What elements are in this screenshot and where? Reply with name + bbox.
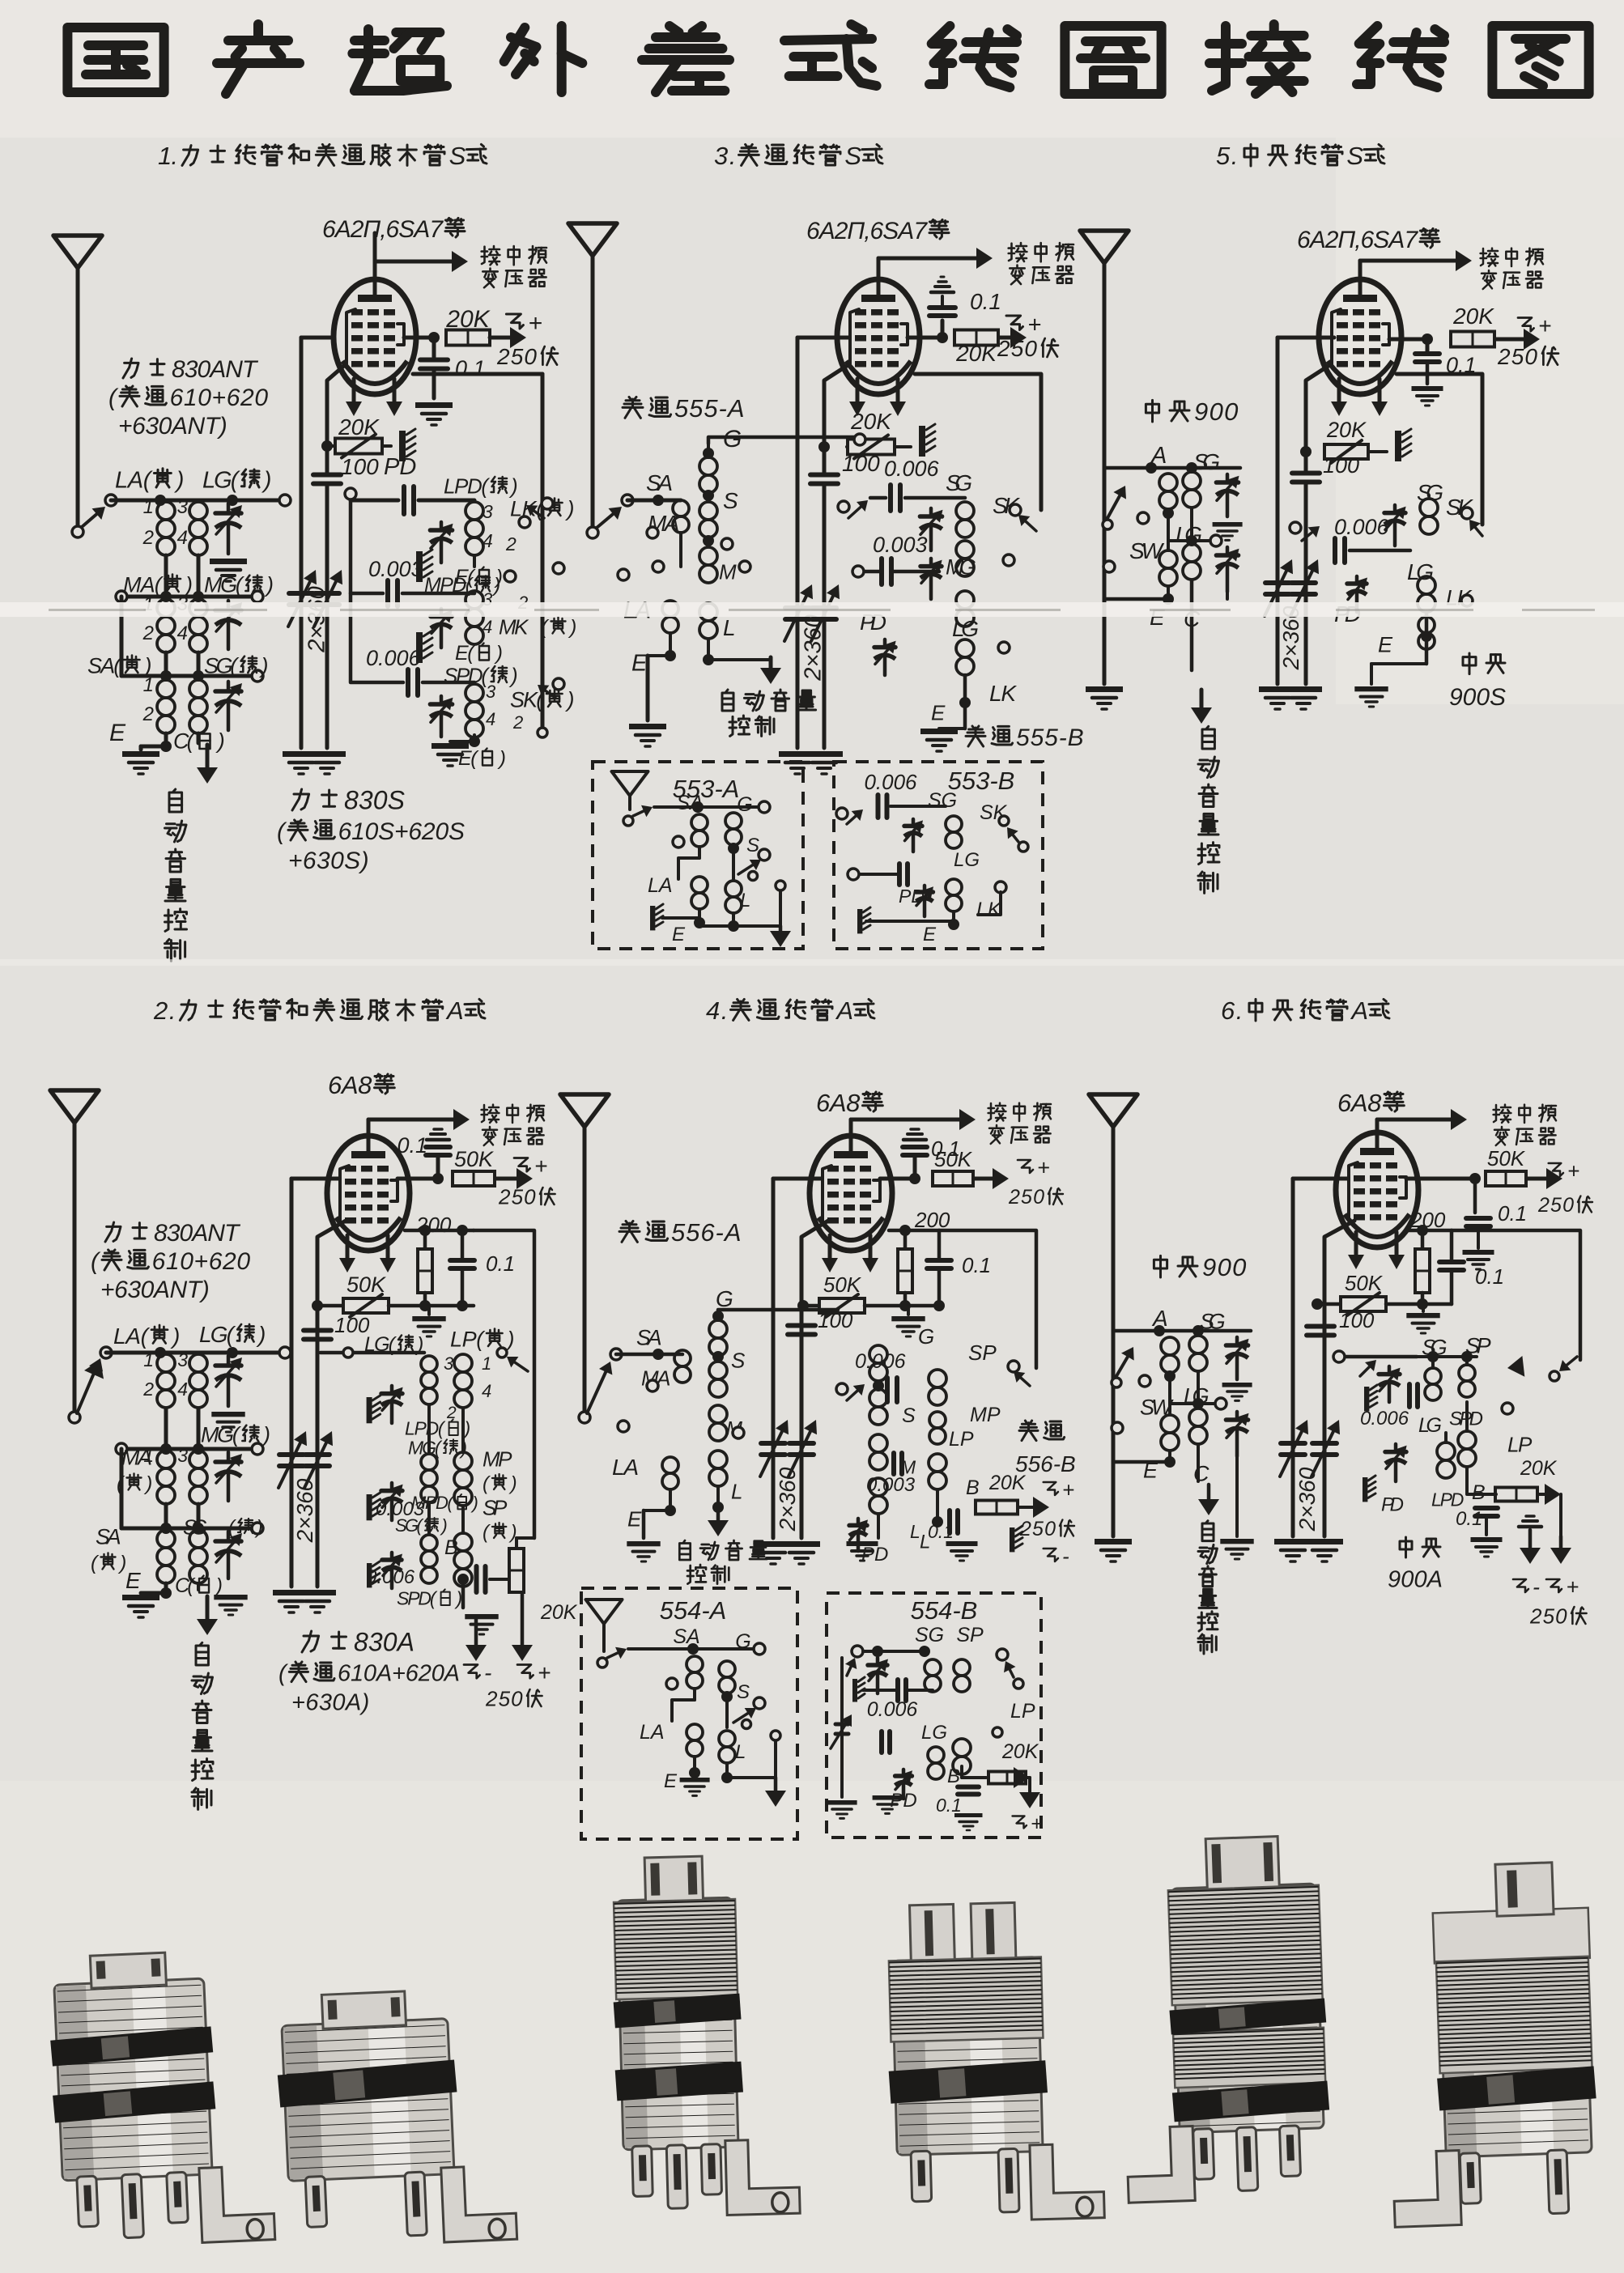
svg-text:6A2Π,6SA7: 6A2Π,6SA7 <box>322 216 444 243</box>
label 变压器 <box>1501 1127 1503 1128</box>
wire arrow <box>368 1118 461 1122</box>
wire <box>1559 1494 1562 1538</box>
wire <box>908 1132 922 1136</box>
junction <box>1422 334 1433 345</box>
wire <box>1397 374 1482 525</box>
wire <box>197 1583 200 1590</box>
trimmer capacitor <box>1235 1337 1239 1345</box>
ground <box>415 402 453 408</box>
coil MG osc <box>421 1454 437 1470</box>
coil LA <box>662 601 678 617</box>
svg-text:610A+620A: 610A+620A <box>338 1660 460 1686</box>
antenna diagram4 <box>560 1094 609 1127</box>
capacitor 0.1 <box>450 1258 474 1263</box>
inset dashed box <box>834 762 1043 949</box>
label 中央900 <box>1154 1260 1167 1268</box>
svg-text:0.003: 0.003 <box>873 533 928 557</box>
svg-text:LA: LA <box>648 874 673 897</box>
trimmer capacitor <box>1235 1412 1239 1420</box>
coil SG <box>189 680 207 698</box>
wire arrow <box>1012 834 1018 842</box>
svg-text:PD: PD <box>890 1790 916 1812</box>
junction <box>653 495 664 506</box>
svg-text:SP: SP <box>956 1624 984 1646</box>
wire <box>1350 549 1410 553</box>
label 接中频 <box>482 1105 484 1122</box>
coil S <box>699 502 717 520</box>
wire <box>797 336 848 340</box>
svg-text:0.1: 0.1 <box>970 289 1001 314</box>
wire <box>835 1732 848 1736</box>
wire <box>662 916 699 920</box>
wire arrow <box>999 336 1018 340</box>
terminal <box>279 1347 291 1358</box>
wire <box>933 1651 962 1652</box>
coil LG right <box>1418 576 1435 594</box>
wire arrow <box>1566 1357 1577 1366</box>
wire <box>197 652 201 676</box>
trimmer capacitor <box>440 696 444 704</box>
terminal <box>538 728 547 737</box>
coil SA/MA <box>673 500 689 516</box>
wire <box>877 257 881 261</box>
wire arrow <box>1474 526 1482 536</box>
svg-text:L: L <box>740 890 750 911</box>
wire arrow <box>847 815 857 824</box>
coil former photo <box>1116 1835 1333 2203</box>
wire <box>732 845 735 879</box>
wire arrow <box>597 512 615 528</box>
coil winding <box>709 1320 727 1338</box>
ground <box>755 1541 792 1547</box>
svg-text:SG: SG <box>915 1624 944 1646</box>
wire <box>1170 1402 1218 1405</box>
junction <box>160 670 172 682</box>
coil winding <box>1437 1442 1455 1460</box>
label 2×360 <box>800 614 826 681</box>
coil LA <box>157 1354 175 1372</box>
chassis ground <box>1010 1527 1014 1552</box>
wire <box>450 740 474 743</box>
variable capacitor 2x360 <box>1265 580 1290 585</box>
coil A <box>1159 474 1177 491</box>
wire <box>291 1177 339 1181</box>
wire arrow <box>77 1366 97 1413</box>
coil SA/MA <box>674 1350 691 1366</box>
svg-text:4: 4 <box>482 1381 491 1401</box>
junction <box>469 736 480 747</box>
wire <box>698 909 701 923</box>
terminal <box>519 516 530 528</box>
svg-text:6.: 6. <box>1221 996 1243 1025</box>
chassis ground <box>1364 1387 1369 1411</box>
svg-text:-: - <box>1533 1575 1540 1600</box>
terminal <box>542 498 553 509</box>
trimmer capacitor <box>923 886 927 892</box>
label 接中频 <box>1494 1105 1496 1122</box>
svg-text:50K: 50K <box>1487 1146 1526 1170</box>
capacitor <box>1415 351 1439 356</box>
junction <box>703 490 714 501</box>
wire <box>1519 1525 1541 1529</box>
wire arrow <box>607 1652 619 1658</box>
inset dashed box <box>593 762 803 949</box>
wire <box>121 1527 257 1531</box>
wire arrow <box>847 1665 852 1676</box>
terminal <box>1550 1371 1559 1381</box>
label 接中频 <box>988 1103 991 1120</box>
svg-text:LA(: LA( <box>113 1323 151 1349</box>
junction <box>1164 1370 1175 1382</box>
svg-text:A: A <box>445 996 464 1025</box>
antenna lead wire <box>1103 263 1107 684</box>
svg-text:3: 3 <box>483 501 493 522</box>
capacitor <box>1466 1216 1490 1221</box>
junction <box>321 440 333 452</box>
resistor 20K <box>1495 1488 1537 1502</box>
svg-text:MP: MP <box>483 1447 512 1471</box>
label 2×360 <box>775 1467 800 1532</box>
svg-text:SPD(: SPD( <box>397 1587 438 1608</box>
rheostat 50K <box>819 1298 865 1313</box>
ground <box>629 724 666 729</box>
junction <box>1186 462 1197 474</box>
svg-text:S: S <box>1346 142 1363 170</box>
svg-text:0.006: 0.006 <box>1334 515 1390 539</box>
svg-text:G: G <box>737 793 752 816</box>
wire <box>903 1230 908 1249</box>
wire <box>405 1229 474 1233</box>
wire <box>121 1447 257 1451</box>
wire <box>801 1221 828 1538</box>
svg-text:555-B: 555-B <box>1016 724 1084 751</box>
wire <box>725 1763 729 1778</box>
terminal <box>116 1443 127 1455</box>
wire <box>1306 550 1330 551</box>
terminal <box>754 1697 765 1709</box>
terminal <box>673 836 684 848</box>
resistor <box>988 1772 1026 1784</box>
wire <box>1477 1229 1480 1248</box>
chassis ground <box>919 426 925 457</box>
svg-text:MG(: MG( <box>201 1423 242 1447</box>
svg-text:250: 250 <box>1529 1604 1567 1628</box>
wire <box>106 1351 283 1355</box>
wire arrow <box>375 260 460 264</box>
coil SW <box>1161 1415 1179 1433</box>
wire <box>908 336 942 340</box>
wire <box>693 1757 696 1773</box>
wire <box>164 1408 168 1449</box>
trimmer capacitor LG <box>227 503 231 513</box>
svg-text:2×360: 2×360 <box>1295 1467 1320 1532</box>
wire arrow <box>490 336 518 340</box>
terminal <box>754 1643 765 1655</box>
wire <box>1425 612 1429 664</box>
ground <box>1354 686 1388 691</box>
label 乙- <box>1044 1549 1058 1561</box>
label 2×360 <box>292 1478 317 1543</box>
label 乙+ <box>506 314 523 329</box>
junction <box>653 1349 664 1360</box>
svg-text:S: S <box>449 142 466 170</box>
svg-text:S: S <box>731 1348 746 1372</box>
svg-text:4: 4 <box>483 617 492 637</box>
wire <box>1197 1444 1200 1481</box>
trimmer capacitor <box>929 559 933 567</box>
wire arrow <box>1528 1530 1533 1556</box>
wire arrow <box>1377 1118 1459 1122</box>
wire arrow <box>206 745 210 775</box>
wire <box>1324 1221 1354 1536</box>
terminal <box>343 1348 353 1357</box>
terminal <box>653 561 664 572</box>
junction <box>721 1772 733 1783</box>
wire <box>1444 1433 1448 1442</box>
ground <box>273 1590 310 1595</box>
junction <box>457 1300 468 1311</box>
junction <box>160 1443 172 1455</box>
chassis ground <box>852 1679 857 1702</box>
wire <box>1344 1355 1417 1359</box>
capacitor <box>927 1258 951 1263</box>
wire <box>707 639 710 660</box>
wire <box>1293 1177 1348 1181</box>
chassis ground <box>1363 1477 1367 1502</box>
svg-text:0.1: 0.1 <box>486 1251 515 1276</box>
capacitor <box>891 1453 896 1474</box>
capacitor 100 <box>1307 1324 1334 1329</box>
capacitor <box>474 1566 479 1592</box>
wire arrow <box>1019 1377 1030 1386</box>
wire <box>1523 1519 1537 1523</box>
wire <box>939 1230 1036 1368</box>
wire <box>908 1689 933 1692</box>
wire arrow <box>1116 1354 1129 1376</box>
wire arrow <box>1018 1506 1041 1509</box>
wire <box>473 735 476 741</box>
antenna diagram6 <box>1089 1094 1137 1127</box>
svg-text:1.: 1. <box>158 142 178 170</box>
svg-text:SG(: SG( <box>395 1515 424 1536</box>
wire <box>708 452 803 454</box>
svg-text:0.003: 0.003 <box>368 557 423 581</box>
terminal <box>69 1412 80 1423</box>
coil winding <box>953 1739 971 1757</box>
wire <box>642 1510 646 1538</box>
ground <box>299 1590 336 1595</box>
wire arrow <box>1527 1177 1554 1181</box>
wire <box>382 444 391 448</box>
terminal <box>1103 520 1112 529</box>
capacitor 0.1 <box>929 305 955 310</box>
terminal <box>1014 1679 1023 1689</box>
junction <box>689 1767 700 1778</box>
coil SG <box>189 1530 207 1548</box>
wire <box>1317 1302 1341 1306</box>
wire <box>141 745 166 749</box>
ground <box>122 751 159 757</box>
wire <box>870 496 886 500</box>
wire arrow <box>769 657 773 676</box>
wire <box>1527 1513 1550 1515</box>
wire arrow <box>633 810 645 816</box>
svg-text:SG: SG <box>946 470 972 495</box>
terminal <box>618 1421 629 1432</box>
wire arrow <box>1360 259 1464 263</box>
svg-text:E: E <box>109 720 126 746</box>
svg-text:4: 4 <box>483 530 493 551</box>
wire <box>903 1293 908 1306</box>
svg-text:B: B <box>966 1476 980 1499</box>
svg-text:6A2Π,6SA7: 6A2Π,6SA7 <box>806 218 928 244</box>
wire <box>121 595 257 599</box>
svg-text:C: C <box>1193 1462 1209 1486</box>
coil winding <box>869 1434 887 1452</box>
label 美通556-A <box>626 1221 627 1223</box>
coil LG <box>189 502 207 520</box>
capacitor <box>1475 1506 1498 1510</box>
ground <box>214 1595 247 1600</box>
coil winding <box>691 877 708 893</box>
terminal <box>1008 1361 1019 1372</box>
coil SG <box>1189 1336 1207 1353</box>
wire <box>1452 1230 1580 1360</box>
capacitor 0.1 <box>420 358 448 363</box>
svg-text:1: 1 <box>143 496 154 518</box>
svg-text:4: 4 <box>177 1379 188 1400</box>
chassis ground <box>367 1397 372 1423</box>
svg-text:2×360: 2×360 <box>304 586 329 652</box>
svg-text:900: 900 <box>1194 397 1238 426</box>
wire <box>907 1306 910 1315</box>
svg-text:LP(: LP( <box>450 1328 486 1352</box>
terminal <box>993 1727 1002 1737</box>
svg-text:0.006: 0.006 <box>884 457 940 481</box>
svg-text:PD: PD <box>1381 1494 1404 1516</box>
wire <box>1426 363 1430 384</box>
label 中央 <box>1400 1541 1412 1549</box>
coil LA <box>662 1457 678 1473</box>
svg-text:900S: 900S <box>1449 684 1506 711</box>
coil winding <box>929 1454 946 1472</box>
coil former photo <box>274 1986 517 2249</box>
coil winding <box>725 813 742 829</box>
junction <box>1192 1398 1204 1409</box>
variable capacitor 2x360 <box>761 1441 785 1446</box>
trimmer capacitor <box>227 1532 231 1541</box>
capacitor 0.003 <box>879 559 884 584</box>
svg-text:2: 2 <box>512 712 523 733</box>
coil LG osc <box>421 1356 437 1372</box>
wire <box>669 633 672 656</box>
junction <box>227 1347 238 1358</box>
wire <box>141 1591 166 1595</box>
resistor 50K plate <box>1486 1171 1526 1186</box>
terminal <box>836 808 848 819</box>
svg-text:-: - <box>1062 1544 1069 1568</box>
terminal <box>1139 1375 1150 1387</box>
wire <box>1465 1402 1469 1431</box>
junction <box>937 332 948 343</box>
svg-text:1: 1 <box>143 1445 154 1466</box>
terminal <box>579 1412 590 1423</box>
terminal <box>759 849 770 860</box>
wire <box>517 1536 534 1540</box>
wire <box>961 1522 963 1538</box>
wire <box>847 445 848 448</box>
junction <box>1164 1456 1175 1468</box>
wire <box>648 654 670 657</box>
trimmer capacitor <box>1226 547 1230 555</box>
trimmer capacitor MG <box>227 601 231 610</box>
wire <box>803 1304 819 1308</box>
coil LK <box>956 639 974 657</box>
ground <box>432 743 469 749</box>
wire <box>373 233 377 261</box>
trimmer capacitor SG <box>227 682 231 691</box>
svg-text:2: 2 <box>142 527 154 549</box>
wire <box>461 1506 465 1533</box>
wire arrow <box>716 1507 721 1528</box>
trimmer capacitor <box>912 819 916 826</box>
svg-text:0.006: 0.006 <box>864 770 917 794</box>
label 美通555-A <box>629 397 631 399</box>
terminal <box>647 527 658 538</box>
coil former photo <box>884 1901 1104 2224</box>
svg-text:LA: LA <box>612 1455 639 1480</box>
coil winding <box>687 1724 703 1740</box>
wire <box>1370 664 1373 684</box>
svg-text:3: 3 <box>444 1353 454 1374</box>
ground <box>1222 1383 1252 1387</box>
svg-text:0.1: 0.1 <box>1498 1201 1527 1226</box>
coil MPD/MK <box>466 591 483 609</box>
wire <box>941 276 944 278</box>
wire <box>905 496 965 500</box>
svg-text:830S: 830S <box>344 786 405 815</box>
wire <box>824 364 849 469</box>
wire <box>432 338 436 357</box>
trimmer capacitor <box>902 1770 906 1776</box>
terminal <box>116 591 127 602</box>
wire <box>349 500 353 682</box>
wire arrow <box>1107 493 1121 518</box>
svg-text:100: 100 <box>341 454 379 479</box>
svg-text:L: L <box>723 615 736 640</box>
wire <box>474 1230 534 1538</box>
junction <box>933 1300 945 1311</box>
wire <box>889 1229 939 1233</box>
capacitor <box>897 864 902 885</box>
svg-text:3: 3 <box>177 1445 188 1466</box>
svg-text:0.1: 0.1 <box>936 1795 962 1816</box>
wire arrow <box>1559 1536 1563 1556</box>
wire <box>431 1132 445 1136</box>
svg-text:A: A <box>835 996 853 1025</box>
svg-text:S: S <box>737 1681 750 1703</box>
wire <box>120 597 124 676</box>
chassis ground <box>399 431 406 461</box>
svg-text:200: 200 <box>415 1213 452 1237</box>
svg-text:554-A: 554-A <box>660 1596 727 1625</box>
coil winding <box>719 1661 735 1677</box>
wire <box>616 1353 682 1357</box>
label 2×360 <box>1295 1467 1320 1532</box>
ground <box>122 1595 159 1600</box>
coil LA <box>157 502 175 520</box>
label 2×360 <box>1278 605 1303 670</box>
